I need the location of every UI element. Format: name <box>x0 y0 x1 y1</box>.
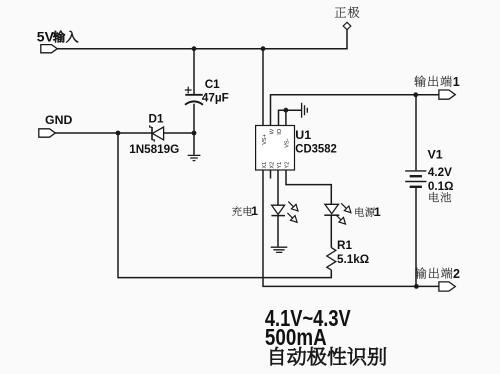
svg-text:X2: X2 <box>269 162 275 169</box>
wire LED1 cathode to ground <box>277 216 279 247</box>
svg-text:1: 1 <box>453 75 460 89</box>
svg-text:1: 1 <box>251 204 258 218</box>
svg-text:VS+: VS+ <box>262 134 268 145</box>
ground symbol below D1 <box>188 155 201 160</box>
label battery <box>429 192 438 202</box>
wire X2 stub <box>270 170 272 179</box>
label power LED <box>355 207 364 216</box>
wire Y2 to LED2 <box>286 170 331 204</box>
label output terminal 1 <box>414 76 425 87</box>
svg-text:2: 2 <box>453 267 460 281</box>
ground symbol chip top (rotated) <box>302 103 308 118</box>
wire VS+ branch <box>262 49 264 126</box>
svg-text:CD3582: CD3582 <box>295 141 337 155</box>
wire chip ground net <box>279 110 302 125</box>
svg-text:Y2: Y2 <box>285 162 291 169</box>
wire X1 to output terminal 2 rail <box>263 170 439 286</box>
connector output terminal 1 <box>439 90 455 99</box>
svg-text:1N5819G: 1N5819G <box>129 143 179 156</box>
svg-text:4.2V: 4.2V <box>428 166 452 179</box>
wire LED2 cathode to R1 <box>330 215 332 247</box>
svg-text:47µF: 47µF <box>202 92 229 105</box>
wire C1 branch vertical <box>193 49 195 133</box>
junction node dots <box>192 46 197 51</box>
connector 5V input <box>41 45 58 53</box>
label auto polarity recognition <box>271 347 284 365</box>
svg-text:VS-: VS- <box>285 138 291 147</box>
wire Y1 to LED1 <box>277 170 279 205</box>
svg-text:Y1: Y1 <box>277 162 283 169</box>
LED D-charge (charging indicator) <box>271 205 285 215</box>
svg-text:IO: IO <box>277 128 283 135</box>
label positive terminal <box>335 7 346 17</box>
svg-text:0.1Ω: 0.1Ω <box>428 180 454 193</box>
svg-text:U1: U1 <box>295 128 311 142</box>
diode D1 1N5819G schottky <box>150 125 164 142</box>
wire GND rail bottom <box>118 133 331 278</box>
IC U1 CD3582 body <box>256 126 295 171</box>
battery V1 plates <box>405 171 426 187</box>
connector output terminal 2 <box>439 282 455 291</box>
wire 5V input top rail to positive terminal <box>57 30 347 49</box>
svg-text:GND: GND <box>45 113 72 127</box>
label output terminal 2 <box>415 267 426 278</box>
wire D1 junction to ground <box>193 133 195 155</box>
svg-text:C1: C1 <box>205 78 220 91</box>
connector positive terminal diamond <box>343 22 351 29</box>
wire V1 battery vertical <box>415 95 417 287</box>
LED D-power (power indicator) <box>324 204 339 215</box>
svg-text:5.1kΩ: 5.1kΩ <box>337 253 369 266</box>
svg-text:R1: R1 <box>337 239 352 252</box>
svg-text:W: W <box>269 128 275 134</box>
wire output terminal 1 net <box>271 95 439 126</box>
ground symbol below LED1 <box>271 247 288 252</box>
connector GND <box>39 129 56 137</box>
LED2 emission arrows <box>336 203 351 224</box>
wire GND row left segment <box>55 132 194 134</box>
svg-text:5V: 5V <box>37 29 55 45</box>
svg-text:1: 1 <box>374 205 381 219</box>
svg-text:X1: X1 <box>262 162 268 169</box>
svg-text:V1: V1 <box>428 148 443 162</box>
resistor R1 zigzag <box>327 248 336 270</box>
svg-text:500mA: 500mA <box>265 324 327 350</box>
label charge LED <box>232 206 242 216</box>
LED1 emission arrows <box>287 202 298 223</box>
svg-text:D1: D1 <box>149 113 164 126</box>
capacitor C1 <box>185 87 203 105</box>
